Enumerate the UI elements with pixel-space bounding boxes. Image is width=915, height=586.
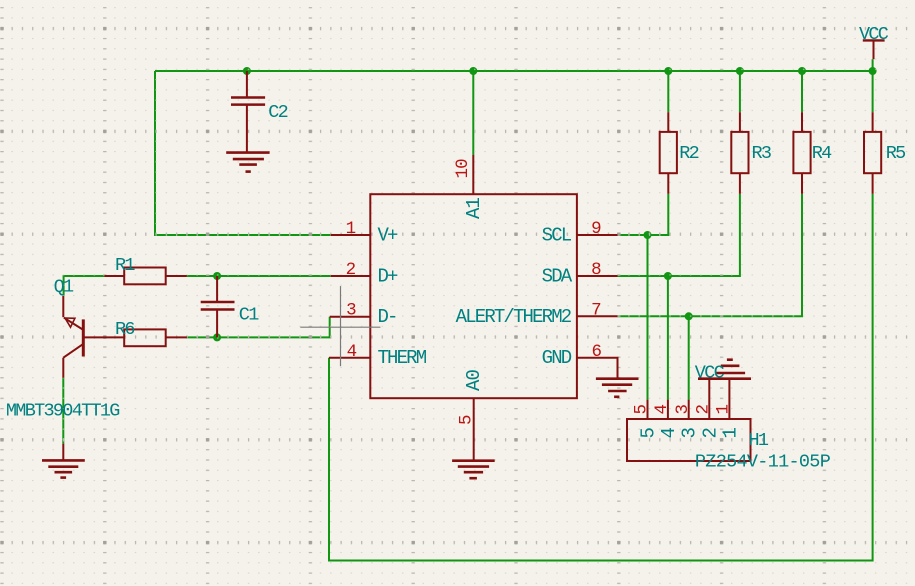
transistor Q1 xyxy=(63,296,124,378)
wire R6 to D- pin xyxy=(187,317,330,338)
U1 pins xyxy=(329,155,618,439)
svg-text:A1: A1 xyxy=(463,197,485,219)
svg-text:5: 5 xyxy=(632,405,652,415)
U1 IC body xyxy=(370,194,577,398)
svg-text:R1: R1 xyxy=(115,255,135,276)
svg-text:3: 3 xyxy=(346,301,356,321)
wire THERM bottom loop to R5 xyxy=(329,194,873,561)
wires group xyxy=(63,59,872,560)
junction SDA / H1 pin4 xyxy=(664,272,672,280)
pin 5 A0 stub xyxy=(473,399,475,439)
capacitor C2 xyxy=(231,71,265,152)
svg-text:2: 2 xyxy=(693,405,713,415)
svg-text:SCL: SCL xyxy=(542,224,572,246)
resistor R6 xyxy=(124,329,187,346)
junction A1/rail xyxy=(469,67,477,75)
resistor R2 xyxy=(660,112,677,194)
svg-text:2: 2 xyxy=(346,260,356,280)
H1 pin 4 stub xyxy=(667,400,669,419)
pin 1 V+ stub xyxy=(331,234,371,236)
junction SCL / H1 pin5 xyxy=(644,231,652,239)
svg-text:6: 6 xyxy=(591,342,601,362)
svg-text:R5: R5 xyxy=(886,143,905,164)
pin 10 A1 stub xyxy=(472,155,474,195)
svg-text:Q1: Q1 xyxy=(54,277,74,298)
resistor R5 xyxy=(864,112,881,194)
svg-text:7: 7 xyxy=(591,301,601,321)
wire SCL drop to H1 pin5 xyxy=(647,235,649,400)
svg-text:C2: C2 xyxy=(268,102,287,123)
wire Q1 emitter to gnd xyxy=(62,378,64,444)
svg-text:GND: GND xyxy=(542,347,572,369)
wire R3 top xyxy=(739,71,741,112)
pin 4 THERM stub xyxy=(329,357,371,359)
VCC power symbol top right xyxy=(863,40,885,59)
H1 pin names (teal, rotated) xyxy=(638,428,742,439)
svg-text:PZ254V-11-05P: PZ254V-11-05P xyxy=(695,452,831,473)
junction C2/rail xyxy=(243,67,251,75)
svg-text:9: 9 xyxy=(591,219,601,239)
svg-text:3: 3 xyxy=(679,428,701,439)
ground at pin 6 xyxy=(596,379,639,397)
svg-text:10: 10 xyxy=(453,159,473,179)
junction R2/rail xyxy=(664,67,672,75)
svg-text:R3: R3 xyxy=(752,143,771,164)
svg-text:A0: A0 xyxy=(463,369,485,391)
connector H1 body xyxy=(627,419,751,461)
wire R4 top xyxy=(801,71,803,112)
svg-text:THERM: THERM xyxy=(378,347,427,369)
svg-text:D-: D- xyxy=(378,306,397,328)
pin 2 D+ stub xyxy=(331,275,371,277)
svg-text:C1: C1 xyxy=(239,305,259,326)
U1 pin names xyxy=(378,197,573,391)
wire left drop to V+ xyxy=(155,71,331,235)
resistor R1 xyxy=(105,268,187,285)
wire A1 drop xyxy=(472,71,474,155)
svg-text:2: 2 xyxy=(699,428,721,439)
svg-text:ALERT/THERM2: ALERT/THERM2 xyxy=(456,306,572,328)
wire Q1 collector to R1 xyxy=(64,276,105,296)
svg-text:1: 1 xyxy=(714,405,734,415)
svg-text:SDA: SDA xyxy=(542,265,573,287)
junction R3/rail xyxy=(736,67,744,75)
junction ALERT / H1 pin3 xyxy=(685,312,693,320)
wire ALERT drop to H1 pin3 xyxy=(688,316,690,399)
pin 6 GND stub xyxy=(577,358,618,379)
ground at C2 xyxy=(226,153,269,172)
svg-text:VCC: VCC xyxy=(695,363,725,384)
ground at Q1 xyxy=(42,444,85,478)
pin 7 ALERT stub xyxy=(577,315,618,317)
wire R1 to D+ pin xyxy=(187,275,331,277)
svg-text:4: 4 xyxy=(658,428,680,439)
wire SCL to R2 xyxy=(618,194,669,235)
svg-text:R6: R6 xyxy=(115,319,134,340)
svg-text:V+: V+ xyxy=(378,224,399,246)
capacitor C1 xyxy=(201,276,235,337)
wire R2 top xyxy=(667,71,669,112)
pin 8 SDA stub xyxy=(577,275,618,277)
wire ALERT to R4 xyxy=(618,194,803,316)
resistor R4 xyxy=(793,112,810,194)
svg-text:1: 1 xyxy=(719,428,741,439)
svg-text:5: 5 xyxy=(457,415,477,425)
wire VCC top rail xyxy=(155,70,873,72)
H1 pin 5 stub xyxy=(647,400,649,419)
junction C1 top / D+ xyxy=(213,272,221,280)
svg-text:5: 5 xyxy=(638,428,660,439)
svg-text:1: 1 xyxy=(346,219,356,239)
svg-text:4: 4 xyxy=(347,342,357,362)
ground at A0 xyxy=(452,439,495,479)
junction R4/rail xyxy=(798,67,806,75)
svg-text:VCC: VCC xyxy=(859,24,889,45)
svg-text:4: 4 xyxy=(652,405,672,415)
svg-text:3: 3 xyxy=(673,405,693,415)
svg-text:H1: H1 xyxy=(749,430,769,451)
resistor R3 xyxy=(731,112,748,194)
pin 3 D- stub xyxy=(330,316,371,318)
pin 9 SCL stub xyxy=(577,234,618,236)
VCC power symbol at H1 (flipped ground style) xyxy=(698,360,751,419)
junction C1 bottom / D- xyxy=(213,333,221,341)
wire SDA drop to H1 pin4 xyxy=(667,276,669,400)
H1 pin numbers (red, rotated) xyxy=(632,405,734,415)
H1 pin 3 stub xyxy=(688,400,690,419)
Q1 emitter arrow xyxy=(65,318,75,327)
svg-text:R4: R4 xyxy=(812,143,832,164)
reference and value labels xyxy=(6,24,905,473)
wire R5 top xyxy=(872,59,874,112)
wire SDA to R3 xyxy=(618,194,740,276)
svg-text:8: 8 xyxy=(591,260,601,280)
svg-text:R2: R2 xyxy=(679,143,698,164)
junction R5/VCC rail xyxy=(869,67,877,75)
svg-text:MMBT3904TT1G: MMBT3904TT1G xyxy=(6,401,119,422)
svg-text:D+: D+ xyxy=(378,265,399,287)
U1 pin numbers xyxy=(346,159,602,425)
crosshair cursor xyxy=(300,286,380,366)
